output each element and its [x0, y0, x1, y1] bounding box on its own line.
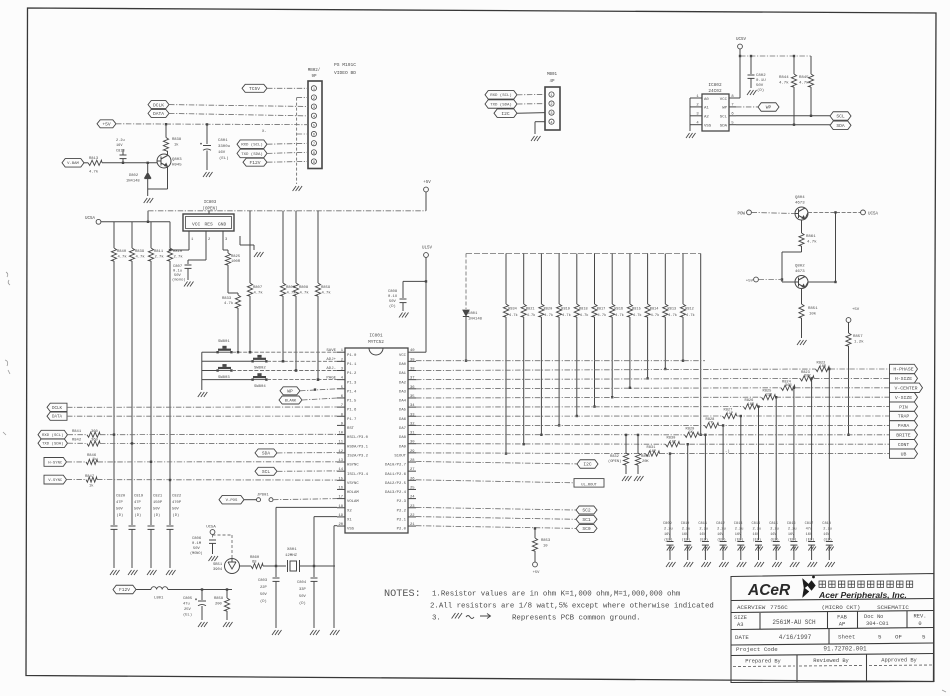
svg-text:HSCL/P3.0: HSCL/P3.0 — [347, 435, 369, 440]
wire H-SIZE row — [416, 378, 800, 379]
svg-text:13: 13 — [338, 459, 343, 463]
resistor R851 — [799, 304, 804, 318]
svg-text:47u: 47u — [806, 528, 812, 532]
svg-text:V-CENTER: V-CENTER — [894, 386, 917, 392]
wire UC5V rail — [739, 49, 741, 56]
svg-text:C815: C815 — [769, 522, 778, 526]
wire SC2 row — [416, 507, 576, 510]
svg-text:UC5V: UC5V — [736, 38, 747, 42]
svg-text:UC5A: UC5A — [206, 526, 216, 530]
svg-text:D802: D802 — [129, 174, 139, 178]
resistor R818 4.7k — [576, 254, 578, 305]
svg-text:4.7k: 4.7k — [544, 313, 553, 318]
resistor R832 (OPEN) — [625, 435, 627, 453]
wire RXD to pin7 — [267, 142, 308, 145]
svg-text:C822: C822 — [172, 495, 182, 499]
svg-text:X-: X- — [262, 130, 267, 134]
svg-text:H945: H945 — [172, 164, 182, 168]
wire riser to +5V bus — [147, 211, 149, 222]
svg-text:SC1: SC1 — [582, 517, 591, 523]
svg-text:33R: 33R — [766, 393, 773, 397]
svg-text:R833: R833 — [222, 297, 232, 301]
svg-text:25: 25 — [410, 486, 415, 490]
net tag SC0 — [576, 524, 597, 532]
capacitor C813 2.2u — [122, 159, 124, 163]
svg-text:I2C: I2C — [501, 111, 510, 117]
resistor R839 — [131, 222, 133, 248]
svg-text:16V: 16V — [699, 533, 706, 537]
svg-text:PARA: PARA — [898, 423, 910, 429]
wire PIN row — [416, 406, 744, 409]
wire SDA row to pin12 — [277, 452, 337, 454]
node +5V at Q802 — [754, 277, 759, 282]
svg-text:16V: 16V — [806, 533, 813, 537]
svg-text:DA1: DA1 — [399, 372, 407, 376]
pin 10 HSCL/P3.0 — [337, 434, 345, 436]
svg-text:2.All resistors are 1/8 watt,5: 2.All resistors are 1/8 watt,5% except w… — [430, 603, 714, 611]
switch SW804 — [253, 376, 266, 378]
pin 16 HDLAM — [337, 488, 345, 490]
net tag I2C right — [577, 460, 598, 469]
svg-text:4.7k: 4.7k — [509, 313, 518, 318]
ground near IC803 — [239, 236, 241, 245]
svg-text:40: 40 — [410, 349, 415, 353]
capacitor C809 2.2u — [669, 454, 671, 540]
capacitor C811 2.2u — [704, 435, 706, 540]
resistor R828 7P — [705, 423, 719, 428]
svg-text:DATA: DATA — [52, 416, 63, 420]
wire DA0 row — [416, 360, 705, 362]
net tag TXD(SDA) mid — [485, 100, 517, 109]
svg-text:16V: 16V — [753, 533, 760, 537]
svg-text:DATE: DATE — [735, 634, 749, 641]
ground below R854 — [634, 476, 644, 481]
net tag V-SYNC — [44, 475, 67, 484]
resistor R840 — [113, 222, 115, 248]
wire EEPROM address pins to ground bus — [690, 97, 695, 99]
pin 4 P1.3 — [337, 379, 345, 381]
svg-text:4.7k: 4.7k — [300, 291, 310, 296]
svg-text:28: 28 — [410, 459, 415, 463]
ground MB02 shield — [293, 186, 303, 191]
svg-text:DA12/P2.5: DA12/P2.5 — [385, 481, 407, 486]
svg-text:2.2u: 2.2u — [682, 528, 691, 532]
svg-text:MB01: MB01 — [547, 73, 558, 77]
svg-text:10: 10 — [543, 545, 548, 549]
svg-text:OF: OF — [895, 634, 902, 641]
svg-text:Doc No: Doc No — [864, 614, 883, 620]
svg-text:R816: R816 — [614, 308, 623, 312]
svg-text:R808: R808 — [299, 286, 309, 290]
pin 35 DA4 — [408, 397, 416, 399]
wire column R859 down — [317, 296, 319, 380]
wire to C808 — [403, 280, 426, 282]
capacitor C805 47u — [201, 590, 203, 601]
svg-text:H-SIZE: H-SIZE — [895, 376, 912, 382]
svg-text:MB02/: MB02/ — [308, 68, 321, 73]
svg-text:+5V: +5V — [746, 280, 754, 284]
svg-text:C816: C816 — [787, 522, 796, 526]
svg-text:2.2u: 2.2u — [735, 528, 744, 532]
svg-text:(OPEN): (OPEN) — [608, 459, 621, 464]
pin 8 P1.7 — [337, 415, 345, 417]
svg-text:3300u: 3300u — [218, 145, 231, 149]
transistor Q804 4673 — [795, 207, 808, 220]
svg-text:SDA: SDA — [836, 123, 845, 129]
pin 12 IS2A/P3.2 — [337, 452, 345, 454]
svg-text:5: 5 — [922, 634, 926, 641]
svg-text:3: 3 — [313, 106, 315, 110]
svg-text:22P: 22P — [260, 586, 268, 590]
svg-text:5: 5 — [878, 634, 882, 641]
svg-text:4673: 4673 — [795, 202, 805, 206]
svg-text:P1.6: P1.6 — [347, 409, 357, 413]
resistor R830 10P — [666, 442, 680, 447]
svg-text:R838: R838 — [172, 138, 182, 142]
svg-text:31: 31 — [410, 432, 415, 436]
svg-text:DCLK: DCLK — [52, 407, 63, 411]
resistor R844 — [793, 56, 795, 74]
svg-text:-): -) — [725, 449, 730, 454]
svg-text:4P: 4P — [549, 80, 555, 84]
net tag BLANK to pin6 — [279, 396, 302, 404]
node UC5A right — [861, 210, 866, 215]
svg-text:R821: R821 — [526, 308, 535, 312]
svg-text:JP801: JP801 — [257, 493, 269, 497]
svg-text:14: 14 — [338, 468, 343, 472]
svg-text:SIZE: SIZE — [734, 615, 747, 621]
svg-text:R851: R851 — [808, 307, 818, 311]
ground below C820 — [110, 570, 120, 575]
svg-text:37: 37 — [410, 377, 415, 381]
resistor R821 4.7k — [523, 254, 525, 305]
resistor R826 10R — [744, 404, 758, 409]
svg-text:H-SYNC: H-SYNC — [48, 461, 63, 465]
svg-text:R815: R815 — [632, 308, 641, 312]
resistor R833 — [228, 292, 238, 294]
svg-text:DA3: DA3 — [399, 390, 407, 394]
svg-text:DA6: DA6 — [399, 418, 407, 422]
wire CONT row — [416, 443, 666, 446]
svg-text:50V: 50V — [260, 593, 268, 597]
svg-text:SCL: SCL — [836, 114, 845, 120]
svg-text:VCC: VCC — [720, 98, 728, 102]
svg-text:DA11/P2.6: DA11/P2.6 — [385, 472, 407, 477]
svg-text:26: 26 — [410, 477, 415, 481]
svg-text:Q803: Q803 — [172, 158, 182, 162]
svg-text:SCHEMATIC: SCHEMATIC — [877, 604, 909, 611]
pin 1 P1.0 — [337, 351, 345, 353]
svg-text:P2.0: P2.0 — [397, 528, 407, 532]
diode D802 1N4148 — [147, 163, 149, 172]
svg-text:16V: 16V — [788, 533, 795, 537]
wire ladder last column — [700, 254, 702, 435]
wire R821 column down — [523, 317, 525, 444]
svg-text:18: 18 — [338, 505, 343, 509]
svg-text:91.72702.001: 91.72702.001 — [823, 646, 867, 653]
svg-text:P1.4: P1.4 — [347, 390, 357, 394]
wire SCL row — [736, 115, 830, 117]
pin 23 P2.2 — [408, 507, 416, 509]
svg-text:IC801: IC801 — [369, 334, 383, 339]
pin 30 DA9 — [408, 443, 416, 445]
svg-text:RST: RST — [347, 427, 355, 431]
pin 21 P2.0 — [408, 525, 416, 527]
wire ground column pins 2,6 — [297, 97, 308, 99]
pin 40 VCC — [408, 351, 416, 353]
ground below C805 — [198, 622, 208, 627]
svg-text:BRITE: BRITE — [896, 433, 911, 439]
svg-text:2.2u: 2.2u — [788, 528, 797, 532]
svg-text:(EL): (EL) — [219, 156, 229, 161]
svg-text:68R: 68R — [804, 375, 811, 379]
net tag +5V-left — [97, 120, 116, 128]
svg-text:R818: R818 — [579, 308, 588, 312]
svg-text:7: 7 — [731, 104, 733, 108]
svg-text:1N4148: 1N4148 — [126, 180, 140, 184]
pin 39 DA0 — [408, 360, 416, 362]
wire R834 column down — [505, 317, 507, 454]
svg-text:150P: 150P — [153, 501, 163, 505]
svg-text:5: 5 — [313, 125, 315, 129]
svg-text:RXD (SCL): RXD (SCL) — [490, 93, 512, 98]
net tag RXD(SCL) left — [38, 430, 68, 439]
svg-text:4.7k: 4.7k — [799, 81, 809, 86]
wire R861 to Q802 base — [801, 246, 803, 252]
svg-text:(EL): (EL) — [183, 613, 192, 618]
svg-text:POW: POW — [737, 213, 745, 217]
svg-text:R814: R814 — [650, 308, 659, 312]
pin 37 DA2 — [408, 379, 416, 381]
svg-text:R819: R819 — [561, 308, 570, 312]
svg-text:17: 17 — [338, 496, 343, 500]
net tag V-BAM — [62, 159, 84, 168]
svg-text:4.7k: 4.7k — [118, 255, 128, 260]
svg-text:22: 22 — [410, 514, 415, 518]
svg-text:BLANK: BLANK — [285, 399, 297, 403]
ground below C802 — [747, 90, 757, 95]
wire R814 column down — [647, 317, 649, 378]
svg-text:RXD (SCL): RXD (SCL) — [42, 433, 64, 438]
resistor R823 68R — [800, 376, 814, 381]
svg-text:R845: R845 — [799, 76, 809, 80]
svg-text:ACERVIEW: ACERVIEW — [737, 604, 766, 611]
svg-text:12: 12 — [338, 450, 343, 454]
wire VSS pin20 to ground — [334, 525, 337, 527]
capacitor C802 — [750, 56, 752, 74]
svg-text:0: 0 — [918, 621, 921, 627]
wire SW801 to pin1 SAVE — [232, 351, 337, 353]
pin 28 DA10/P2.7 — [408, 461, 416, 463]
svg-text:SDA: SDA — [262, 451, 271, 457]
resistor R838 — [163, 138, 168, 151]
svg-text:10R: 10R — [748, 403, 755, 407]
wire +5V down to bus — [425, 192, 427, 211]
svg-text:R810: R810 — [173, 250, 183, 254]
svg-text:WP: WP — [287, 388, 293, 394]
wire +5V rail to pin5 — [116, 123, 308, 126]
pin 29 S1OUT — [408, 452, 416, 454]
svg-text:RES: RES — [205, 222, 214, 228]
svg-text:C805: C805 — [183, 597, 193, 601]
pin 38 DA1 — [408, 370, 416, 372]
wire X2 column — [275, 507, 277, 566]
ground below R832 — [622, 476, 632, 481]
ic IC802 24C02 — [702, 94, 729, 131]
svg-text:Reviewed By: Reviewed By — [813, 658, 849, 664]
svg-text:X2: X2 — [347, 509, 352, 513]
capacitor C812 2.2u — [722, 425, 724, 540]
wire DCLK to pin3 — [169, 105, 308, 107]
svg-text:DA7: DA7 — [399, 427, 407, 431]
svg-text:32: 32 — [410, 422, 415, 426]
capacitor C817 47u — [811, 378, 813, 540]
svg-text:TC5V: TC5V — [249, 86, 260, 92]
svg-text:20: 20 — [338, 523, 343, 527]
resistor R857 — [848, 322, 850, 333]
wire Q804 emitter to UC5A — [805, 212, 808, 219]
ground below C817 — [808, 547, 816, 551]
transistor Q851 3904 — [225, 559, 240, 574]
svg-text:2.2u: 2.2u — [823, 528, 832, 532]
wire R826 to tag — [758, 406, 890, 408]
wire SCL row to pin14 — [277, 470, 337, 472]
svg-text:D801: D801 — [468, 312, 478, 316]
net tag SDA mid — [255, 449, 277, 457]
resistor R859 — [317, 211, 319, 283]
svg-text:Acer Peripherals, Inc.: Acer Peripherals, Inc. — [818, 590, 907, 600]
wire Q851 to R860 — [240, 565, 252, 567]
svg-text:PIN: PIN — [899, 404, 908, 410]
svg-text:C801: C801 — [218, 139, 228, 143]
svg-text:0.1U: 0.1U — [756, 79, 766, 83]
resistor R806 — [282, 211, 284, 283]
svg-text:HDLAM: HDLAM — [347, 491, 359, 495]
svg-text:304-C01: 304-C01 — [866, 621, 889, 627]
svg-text:PS M191C: PS M191C — [334, 62, 356, 68]
svg-text:C806: C806 — [192, 537, 202, 541]
title block dashed signature lines — [733, 665, 932, 667]
svg-text:SCL: SCL — [262, 469, 271, 475]
svg-text:50V: 50V — [174, 274, 182, 278]
wire column R810 down — [169, 261, 171, 525]
wire column R840 down — [113, 261, 115, 525]
svg-text:R813: R813 — [668, 308, 677, 312]
svg-text:V-POS: V-POS — [226, 499, 238, 503]
resistor R824 36R — [781, 385, 795, 390]
svg-text:2.2u: 2.2u — [116, 139, 125, 143]
svg-text:DA0: DA0 — [399, 363, 407, 367]
resistor R819 4.7k — [558, 254, 560, 305]
ground below C813 — [738, 547, 746, 551]
svg-text:SCL: SCL — [720, 116, 728, 120]
net tag I2C mid — [494, 109, 517, 118]
svg-text:4673: 4673 — [795, 270, 805, 274]
svg-text:C821: C821 — [153, 495, 163, 499]
wire R818 column down — [576, 317, 578, 416]
svg-text:2.2u: 2.2u — [699, 528, 708, 532]
resistor R845 — [810, 56, 812, 74]
wire Q802 collector down — [801, 289, 803, 305]
wire JP801 to pin17 — [273, 499, 337, 500]
svg-text:4.7k: 4.7k — [527, 313, 536, 318]
svg-text:R825: R825 — [231, 255, 241, 259]
resistor R858 200 — [226, 590, 228, 599]
ground below C822 — [166, 570, 176, 575]
svg-text:8: 8 — [313, 152, 315, 156]
ground below C806 — [209, 556, 219, 561]
svg-text:DCLK: DCLK — [153, 102, 164, 108]
svg-text:DA10/P2.7: DA10/P2.7 — [385, 463, 407, 468]
svg-text:(OPEN): (OPEN) — [202, 207, 217, 212]
inductor L801 — [151, 587, 168, 590]
svg-text:Q802: Q802 — [795, 265, 805, 269]
ground below C818 — [826, 547, 834, 551]
wire V-CENTER row — [416, 388, 781, 389]
svg-text:4.7k: 4.7k — [562, 313, 571, 318]
wire SW803 to pin3 ADJ- — [232, 370, 337, 372]
svg-text:39: 39 — [410, 358, 415, 362]
svg-text:X801: X801 — [287, 548, 297, 552]
svg-text:A0: A0 — [704, 98, 709, 102]
net tag DCLK-top — [148, 101, 169, 109]
pin 33 DA6 — [408, 415, 416, 417]
svg-text:DA8: DA8 — [399, 436, 407, 440]
pin 2 P1.1 — [337, 360, 345, 362]
svg-text:50V: 50V — [756, 84, 764, 88]
svg-text:50V: 50V — [116, 508, 124, 512]
wire DCLK row to pin7 — [67, 406, 337, 408]
svg-text:X1: X1 — [347, 519, 352, 523]
wire MB01 pin4 to ground — [535, 121, 545, 123]
ground below C819 — [128, 570, 138, 575]
svg-text:R842: R842 — [72, 438, 82, 442]
svg-text:HSDA/P3.1: HSDA/P3.1 — [347, 444, 369, 449]
svg-text:50V: 50V — [193, 547, 201, 551]
resistor R834 4.7k — [505, 254, 507, 305]
svg-text:470P: 470P — [172, 501, 182, 505]
wire to MB01 pin2 — [517, 103, 545, 105]
svg-text:C820: C820 — [116, 495, 126, 499]
svg-text:C810: C810 — [681, 522, 690, 526]
net tag V-SIZE — [890, 393, 918, 402]
resistor R816 4.7k — [611, 254, 613, 305]
svg-text:C812: C812 — [716, 522, 725, 526]
wire TXD to pin8 — [267, 152, 308, 153]
net tag SDA right — [830, 121, 851, 130]
svg-text:P2.3: P2.3 — [397, 500, 407, 504]
svg-text:UL_ROUT: UL_ROUT — [581, 483, 597, 487]
svg-text:R857: R857 — [853, 335, 863, 339]
svg-text:16V: 16V — [218, 151, 226, 155]
svg-text:4.7k: 4.7k — [779, 81, 789, 86]
wire Q804 collector down — [801, 220, 803, 233]
svg-text:1N4148: 1N4148 — [468, 318, 483, 322]
svg-text:4.7k: 4.7k — [651, 313, 660, 318]
svg-text:SB51: SB51 — [213, 563, 223, 567]
svg-text:21: 21 — [410, 523, 415, 527]
pin 15 VSYNC — [337, 479, 345, 481]
resistor R820 4.7k — [540, 254, 542, 305]
svg-text:R840: R840 — [117, 250, 127, 254]
svg-text:P2.2: P2.2 — [397, 509, 407, 513]
net tag TC5V — [242, 84, 267, 92]
net tag RXD(SCL) mid — [485, 91, 517, 100]
svg-text:SW804: SW804 — [254, 385, 266, 389]
svg-text:4.7k: 4.7k — [668, 313, 677, 318]
svg-text:(D): (D) — [260, 599, 267, 604]
svg-text:15: 15 — [338, 477, 343, 481]
